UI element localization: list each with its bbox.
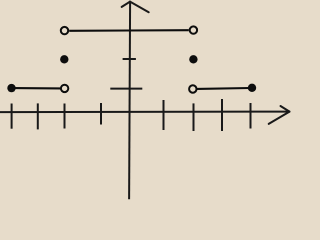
- top step segment y=3 level: [69, 29, 189, 32]
- x-axis tick x=193.5: [193, 103, 195, 131]
- open circle endpoint (2,3): [190, 26, 197, 33]
- y-axis tick y=59 (short): [123, 58, 136, 60]
- x-axis tick x=222: [221, 99, 223, 131]
- open circle endpoint (-2,3): [61, 27, 68, 34]
- x-axis: [0, 111, 290, 114]
- x-axis tick x=11.6: [11, 104, 13, 129]
- x-axis tick x=250.5: [250, 103, 252, 129]
- filled point (-2,2): [60, 55, 68, 63]
- bottom-right step segment y=1 level: [197, 87, 250, 90]
- y-axis tick y=88.6 (long): [110, 88, 142, 90]
- x-axis tick x=37.8: [37, 103, 39, 129]
- x-axis tick x=101: [100, 103, 102, 125]
- open circle endpoint (-2,1): [61, 85, 68, 92]
- open circle endpoint (2,1): [189, 85, 196, 92]
- filled point (2,2): [189, 55, 197, 63]
- y-axis: [129, 3, 130, 200]
- y-axis arrowhead: [122, 2, 149, 13]
- x-axis arrowhead: [269, 106, 290, 124]
- filled endpoint (-4,1): [7, 84, 15, 92]
- x-axis tick x=163.5: [163, 100, 165, 130]
- bottom-left step segment y=1 level: [13, 87, 61, 89]
- x-axis tick x=64.5: [64, 104, 66, 129]
- filled endpoint (4,1): [248, 84, 256, 92]
